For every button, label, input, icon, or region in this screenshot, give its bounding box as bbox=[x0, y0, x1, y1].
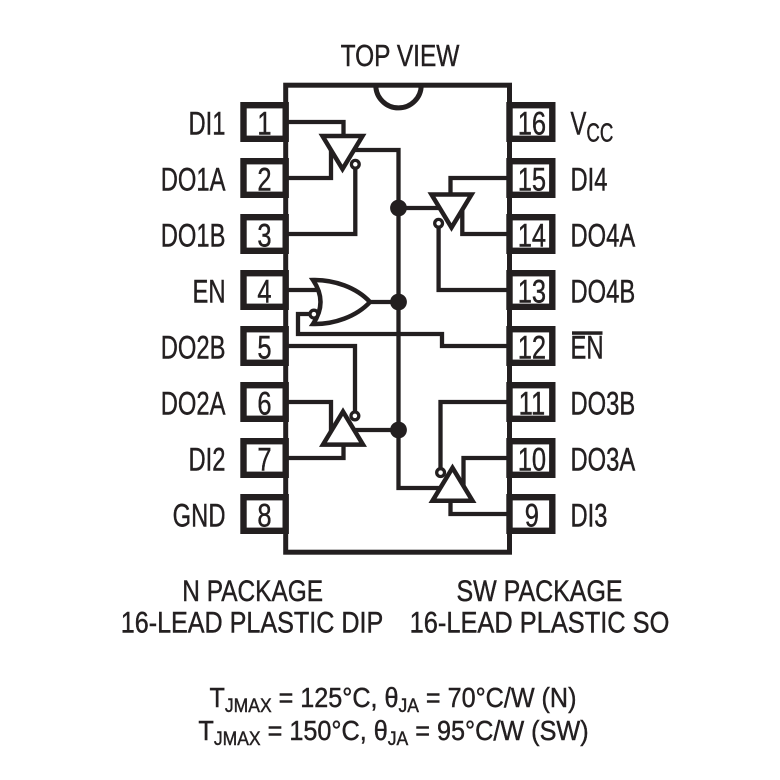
svg-text:6: 6 bbox=[257, 387, 271, 423]
svg-text:DO4B: DO4B bbox=[571, 274, 636, 311]
svg-text:3: 3 bbox=[257, 219, 271, 255]
svg-text:DO2A: DO2A bbox=[161, 386, 226, 423]
svg-text:N PACKAGE: N PACKAGE bbox=[182, 573, 323, 607]
svg-text:9: 9 bbox=[525, 499, 539, 535]
svg-text:DI4: DI4 bbox=[571, 162, 608, 199]
svg-text:10: 10 bbox=[518, 443, 546, 479]
svg-text:GND: GND bbox=[173, 498, 226, 535]
svg-text:7: 7 bbox=[257, 443, 271, 479]
svg-text:DO1A: DO1A bbox=[161, 162, 226, 199]
svg-text:SW PACKAGE: SW PACKAGE bbox=[456, 574, 622, 608]
svg-text:5: 5 bbox=[257, 331, 271, 367]
svg-text:DO3B: DO3B bbox=[571, 386, 636, 423]
svg-text:8: 8 bbox=[257, 499, 271, 535]
svg-text:DI3: DI3 bbox=[571, 498, 608, 535]
svg-text:EN: EN bbox=[571, 330, 604, 367]
svg-text:DO1B: DO1B bbox=[161, 218, 226, 255]
svg-text:DO2B: DO2B bbox=[161, 330, 226, 367]
svg-text:TOP VIEW: TOP VIEW bbox=[341, 38, 460, 72]
svg-text:4: 4 bbox=[257, 275, 271, 311]
svg-text:16-LEAD PLASTIC DIP: 16-LEAD PLASTIC DIP bbox=[121, 605, 383, 639]
svg-text:DI1: DI1 bbox=[189, 106, 226, 143]
svg-text:1: 1 bbox=[257, 107, 271, 143]
svg-text:16: 16 bbox=[518, 107, 546, 143]
svg-text:14: 14 bbox=[518, 219, 546, 255]
svg-text:EN: EN bbox=[192, 274, 225, 311]
svg-text:13: 13 bbox=[518, 275, 546, 311]
svg-text:2: 2 bbox=[257, 163, 271, 199]
svg-text:12: 12 bbox=[518, 331, 546, 367]
svg-text:15: 15 bbox=[518, 163, 546, 199]
svg-text:11: 11 bbox=[519, 387, 545, 423]
svg-text:DO3A: DO3A bbox=[571, 442, 636, 479]
svg-text:DI2: DI2 bbox=[189, 442, 226, 479]
svg-text:16-LEAD PLASTIC SO: 16-LEAD PLASTIC SO bbox=[410, 605, 670, 638]
svg-text:DO4A: DO4A bbox=[571, 218, 636, 255]
